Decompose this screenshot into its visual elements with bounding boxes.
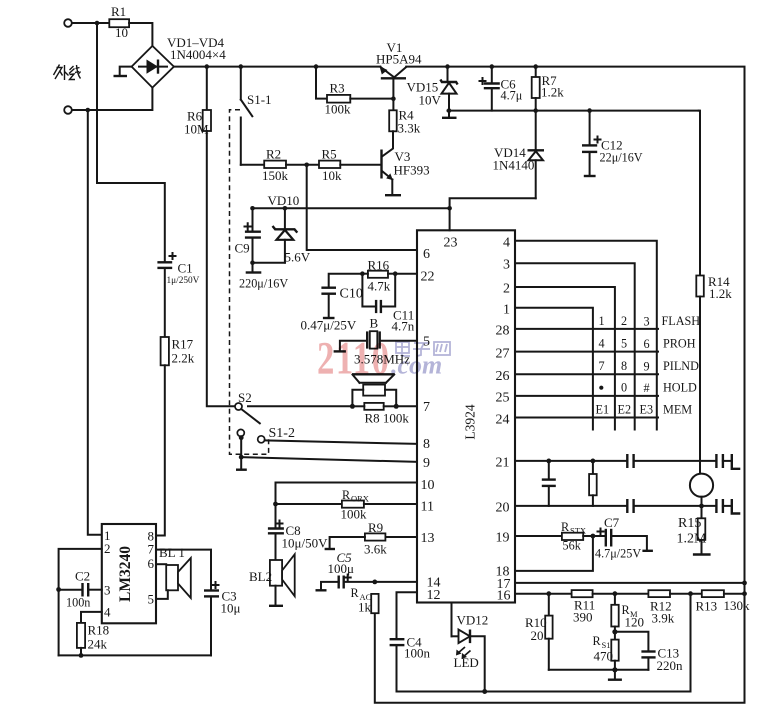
resistor R18: [77, 612, 109, 656]
resistor R12: [648, 590, 701, 625]
capacitor shunt 21-20: [542, 461, 556, 506]
svg-text:11: 11: [421, 500, 434, 515]
svg-text:10: 10: [115, 25, 128, 40]
speaker BL1: [156, 545, 191, 599]
wire: [129, 23, 152, 46]
svg-text:100n: 100n: [66, 596, 90, 610]
keypad labels: [596, 314, 654, 417]
wire to pin9: [241, 457, 417, 462]
svg-text:STX: STX: [570, 526, 586, 536]
wire upper-left rail: [97, 23, 165, 262]
node junction right edge 17: [742, 581, 747, 586]
svg-text:1N4140: 1N4140: [493, 158, 535, 173]
node junction ground: [612, 667, 617, 672]
svg-text:10M: 10M: [184, 122, 209, 137]
resistor R10: [525, 594, 553, 670]
resistor R13: [696, 590, 751, 613]
IC U2 LM3240: [102, 524, 156, 623]
svg-text:22μ/16V: 22μ/16V: [600, 151, 643, 165]
wire: [286, 164, 319, 166]
svg-text:BL2: BL2: [249, 569, 272, 584]
svg-text:C1: C1: [178, 261, 193, 276]
node junction Rs1 top: [613, 591, 618, 596]
svg-text:3.3k: 3.3k: [398, 121, 421, 136]
node junction: [304, 163, 309, 168]
terminal T2: [64, 106, 72, 114]
svg-text:16: 16: [497, 589, 511, 604]
wire rail to LM3240 pin8: [156, 365, 165, 535]
svg-text:R8 100k: R8 100k: [365, 411, 410, 426]
wire to R14: [699, 111, 700, 276]
ground stub: [608, 670, 622, 680]
node junction VD10 top: [283, 206, 288, 211]
resistor RS1: [593, 632, 619, 670]
svg-text:FLASH: FLASH: [662, 314, 701, 328]
wire crystal to pin5: [380, 340, 417, 342]
capacitor C7: [595, 515, 653, 561]
svg-text:3: 3: [503, 258, 510, 273]
svg-text:1.2k: 1.2k: [709, 286, 732, 301]
wire pin23: [449, 208, 451, 230]
node junction pin10-11: [273, 502, 278, 507]
capacitor C9: [235, 208, 289, 290]
resistor R6: [184, 67, 211, 137]
svg-text:20: 20: [531, 628, 544, 643]
wire bottom rail inner: [397, 594, 691, 692]
resistor R1: [109, 4, 129, 40]
svg-text:E3: E3: [640, 403, 654, 417]
ground at bridge left: [114, 67, 132, 76]
svg-text:21: 21: [496, 456, 510, 471]
node junction R7 top: [533, 64, 538, 69]
node junction C9 bottom: [250, 260, 255, 265]
svg-text:C9: C9: [235, 241, 250, 256]
watermark dianziwang blue: [396, 342, 450, 356]
wire pin18: [515, 536, 593, 571]
watermark .com blue: [391, 351, 442, 380]
wire mic to line20: [701, 497, 703, 506]
crystal B: [354, 316, 410, 367]
node junction pin14: [372, 580, 377, 585]
wire VD14 to pin23: [450, 198, 536, 208]
svg-text:VD10: VD10: [268, 193, 300, 208]
resistor R2: [262, 147, 289, 184]
resistor RSTX: [561, 520, 605, 553]
svg-text:PROH: PROH: [663, 337, 696, 351]
capacitor C13: [615, 632, 683, 673]
svg-text:5: 5: [423, 335, 430, 350]
resistor R17: [161, 337, 195, 366]
svg-text:R1: R1: [111, 4, 126, 19]
svg-text:1.2M: 1.2M: [677, 532, 708, 547]
wire pin10: [276, 483, 418, 505]
node junction R16 right: [393, 271, 398, 276]
node junction R18 bottom: [79, 653, 84, 658]
wire pin19: [515, 535, 562, 537]
capacitor C10: [301, 287, 363, 333]
svg-text:5: 5: [621, 337, 627, 351]
wire pin4 column: [515, 241, 657, 430]
svg-text:2: 2: [621, 314, 627, 328]
resistor shunt 21-20: [589, 461, 597, 506]
wire pin6 branch: [307, 165, 417, 250]
buzzer transducer: [352, 374, 396, 406]
svg-text:7: 7: [423, 400, 430, 415]
wire pin3 column: [515, 263, 635, 429]
svg-text:220μ/16V: 220μ/16V: [239, 277, 288, 291]
svg-text:R2: R2: [266, 147, 281, 162]
svg-text:C2: C2: [75, 569, 90, 584]
capacitor coupling line21 right: [716, 454, 723, 468]
node junction R13 left: [688, 591, 693, 596]
svg-text:100k: 100k: [341, 507, 368, 522]
svg-text:R13: R13: [696, 599, 718, 614]
node junction C2: [56, 587, 61, 592]
node junction right edge 16: [742, 591, 747, 596]
capacitor C2: [59, 569, 102, 610]
svg-text:24k: 24k: [88, 637, 108, 652]
resistor R11: [572, 590, 649, 624]
capacitor C8: [268, 504, 328, 560]
wire bottom rail outer: [375, 583, 745, 703]
transistor V1: [376, 40, 422, 99]
resistor R5: [319, 147, 342, 184]
svg-text:4.7k: 4.7k: [368, 279, 391, 294]
svg-text:E1: E1: [596, 403, 610, 417]
node junction: [86, 108, 91, 113]
svg-text:VD12: VD12: [457, 613, 489, 628]
wire bottom: [59, 654, 211, 656]
svg-text:9: 9: [423, 456, 430, 471]
svg-text:150k: 150k: [262, 168, 289, 183]
svg-text:100k: 100k: [325, 102, 352, 117]
node junction R7 bottom: [533, 108, 538, 113]
terminal bracket line21: [723, 454, 740, 469]
svg-text:MEM: MEM: [663, 403, 692, 417]
wire pin25 row: [515, 395, 658, 397]
svg-text:7: 7: [148, 542, 155, 557]
svg-text:R16: R16: [368, 257, 390, 272]
ground under S1-2: [236, 457, 247, 470]
svg-text:3.9k: 3.9k: [652, 611, 675, 626]
switch S1-1: [241, 67, 272, 165]
transistor V3: [382, 131, 430, 195]
node junction VD15 anode: [447, 108, 452, 113]
svg-text:56k: 56k: [563, 539, 582, 553]
wire to V3 base: [340, 164, 381, 166]
svg-text:100n: 100n: [404, 646, 431, 661]
svg-text:25: 25: [496, 391, 510, 406]
terminal bracket line20: [723, 499, 740, 514]
switch S1-2: [237, 426, 295, 443]
node junction S1-1 tap: [239, 64, 244, 69]
capacitor series on line20: [627, 499, 633, 513]
wire: [241, 164, 264, 166]
wire pin20 line: [515, 505, 627, 507]
node junction shunt cap top: [546, 459, 551, 464]
svg-text:E2: E2: [618, 403, 632, 417]
svg-text:HF393: HF393: [394, 163, 430, 178]
svg-text:20: 20: [496, 501, 510, 516]
wire C10 branch: [329, 274, 363, 287]
svg-text:2110: 2110: [317, 331, 391, 383]
wire pin11: [276, 503, 342, 505]
svg-text:8: 8: [621, 359, 627, 373]
svg-text:22: 22: [421, 270, 435, 285]
svg-text:10: 10: [421, 478, 435, 493]
svg-text:R5: R5: [322, 147, 337, 162]
svg-text:10μ: 10μ: [221, 601, 241, 616]
ground stub under VD15: [442, 111, 457, 118]
node junction under S1-2: [239, 435, 244, 440]
wire: [350, 98, 393, 100]
svg-text:1k: 1k: [358, 600, 372, 615]
resistor R16: [362, 257, 395, 293]
svg-text:4: 4: [104, 605, 111, 620]
wire pin1 column: [515, 308, 593, 430]
wire pin14: [375, 581, 417, 583]
svg-text:R3: R3: [330, 81, 345, 96]
wire R14 to microphone: [699, 297, 701, 474]
svg-text:4.7μ: 4.7μ: [501, 89, 523, 103]
svg-text:12: 12: [427, 588, 441, 603]
wire C9-VD10 bottom: [253, 262, 285, 264]
svg-text:HP5A94: HP5A94: [376, 52, 422, 67]
svg-text:8: 8: [423, 437, 430, 452]
svg-text:2: 2: [104, 541, 111, 556]
svg-text:6: 6: [148, 556, 155, 571]
resistor RM: [611, 594, 644, 632]
node junction pin23 tap: [447, 206, 452, 211]
svg-text:9: 9: [644, 360, 650, 374]
svg-text:5.6V: 5.6V: [285, 250, 311, 265]
wire: [164, 268, 166, 337]
wire: [634, 505, 717, 507]
wire R8 to pin7: [396, 405, 417, 407]
node junction C9 top: [250, 206, 255, 211]
dashed switch box: [230, 110, 269, 455]
node junction C12 tap: [587, 108, 592, 113]
svg-text:LM3240: LM3240: [117, 546, 134, 602]
svg-text:LED: LED: [454, 655, 479, 670]
wire pin12: [397, 592, 418, 638]
resistor R7: [532, 67, 565, 111]
svg-text:1: 1: [503, 303, 510, 318]
resistor R4: [389, 99, 421, 136]
node junction R10 top: [546, 591, 551, 596]
node junction: [95, 21, 100, 26]
resistor R9: [325, 520, 388, 557]
wire pin16 line: [515, 593, 572, 595]
svg-text:28: 28: [496, 324, 510, 339]
svg-text:100μ: 100μ: [328, 561, 355, 576]
ground under C9: [246, 263, 262, 273]
svg-text:3: 3: [104, 583, 111, 598]
wire left rail to LM3240 pin1: [88, 110, 102, 535]
label 外线: [54, 65, 81, 81]
svg-text:0.47μ/25V: 0.47μ/25V: [301, 318, 357, 333]
svg-text:1μ/250V: 1μ/250V: [167, 276, 200, 286]
svg-text:R18: R18: [88, 623, 110, 638]
node junction mic bottom: [699, 504, 704, 509]
wire top rail: [174, 66, 380, 68]
node junction C6 tap: [490, 64, 495, 69]
wire mid rail: [448, 110, 699, 112]
svg-text:.com: .com: [391, 351, 442, 380]
svg-text:#: #: [644, 381, 650, 395]
wire crystal left lead: [340, 341, 367, 352]
svg-text:C7: C7: [604, 515, 620, 530]
wire top rail right of V1: [406, 67, 744, 583]
svg-text:23: 23: [444, 236, 458, 251]
wire S2 to R8: [248, 405, 352, 407]
IC U1 L3924: [417, 230, 515, 603]
wire: [634, 460, 717, 462]
svg-text:C10: C10: [340, 287, 363, 302]
zener VD15: [407, 67, 458, 111]
svg-text:R9: R9: [368, 520, 383, 535]
svg-text:PILND: PILND: [663, 359, 699, 373]
svg-text:130k: 130k: [724, 598, 751, 613]
svg-text:S2: S2: [238, 390, 252, 405]
capacitor series on line21: [627, 454, 633, 468]
svg-text:R: R: [593, 634, 602, 648]
resistor R14: [696, 274, 732, 301]
svg-text:13: 13: [421, 531, 435, 546]
svg-text:24: 24: [496, 413, 510, 428]
wire pin24 row: [515, 417, 658, 419]
svg-text:220n: 220n: [657, 658, 684, 673]
node junction R8 left: [350, 404, 355, 409]
svg-text:B: B: [370, 316, 379, 331]
switch S2: [235, 390, 260, 423]
wire pin26 row: [515, 373, 658, 375]
terminal T1: [64, 19, 72, 27]
svg-text:R: R: [342, 488, 351, 502]
node junction Rs1-Rs2: [612, 629, 617, 634]
svg-text:3.6k: 3.6k: [364, 542, 387, 557]
svg-text:1: 1: [599, 314, 605, 328]
resistor R15: [677, 506, 711, 555]
svg-text:BL 1: BL 1: [159, 545, 185, 560]
wire: [72, 88, 152, 110]
svg-text:0: 0: [621, 381, 627, 395]
wire pin2: [59, 549, 102, 590]
svg-text:470: 470: [594, 649, 614, 664]
svg-text:19: 19: [496, 531, 510, 546]
svg-text:3: 3: [644, 315, 650, 329]
wire pin27 row: [515, 351, 658, 353]
svg-text:10k: 10k: [322, 168, 342, 183]
node junction R8 right: [394, 404, 399, 409]
wire: [72, 22, 109, 24]
watermark 21IC red: [317, 331, 391, 383]
wire R6 rail down to S2: [207, 131, 235, 406]
capacitor C1: [157, 253, 199, 286]
svg-text:27: 27: [496, 347, 510, 362]
node junction: [239, 455, 244, 460]
wire S1-2 to pin8: [265, 440, 417, 444]
node junction R16 left: [360, 271, 365, 276]
svg-text:4: 4: [599, 337, 605, 351]
svg-text:S1-1: S1-1: [247, 92, 272, 107]
diode VD14: [493, 111, 545, 199]
capacitor coupling line20 right: [716, 499, 723, 513]
wire pin7 to C3 rail: [156, 550, 211, 590]
svg-text:5: 5: [148, 592, 155, 607]
svg-text:10μ/50V: 10μ/50V: [282, 536, 329, 551]
svg-text:7: 7: [599, 359, 605, 373]
wire S1-2 to ground junction: [240, 436, 242, 457]
wire R10 to Rs2 bottom: [549, 669, 649, 671]
node junction pin18-19: [591, 534, 596, 539]
capacitor C6: [480, 67, 523, 111]
microphone BM: [690, 474, 713, 497]
svg-text:L3924: L3924: [463, 404, 478, 439]
node junction R3 tap: [314, 64, 319, 69]
svg-text:10V: 10V: [419, 93, 442, 108]
node junction R6 tap: [205, 64, 210, 69]
svg-text:R: R: [351, 586, 360, 600]
svg-text:4: 4: [503, 236, 510, 251]
wire left rail: [58, 590, 60, 656]
speaker BL2: [249, 554, 295, 606]
svg-text:1.2k: 1.2k: [541, 85, 564, 100]
wire pin13: [385, 536, 417, 538]
svg-text:120: 120: [625, 615, 645, 630]
capacitor C12: [582, 111, 643, 176]
LED VD12: [452, 603, 489, 692]
node junction LED bottom: [482, 689, 487, 694]
resistor R3: [316, 67, 351, 117]
wire pin21 line: [515, 460, 627, 462]
resistor RAC: [351, 586, 379, 615]
svg-text:390: 390: [573, 610, 593, 625]
node junction: [391, 96, 396, 101]
svg-text:26: 26: [496, 369, 510, 384]
svg-text:1N4004×4: 1N4004×4: [170, 47, 226, 62]
svg-text:HOLD: HOLD: [663, 381, 697, 395]
wire pin28 row: [515, 328, 658, 330]
capacitor C4: [390, 635, 431, 692]
node junction shunt res top: [591, 459, 596, 464]
svg-text:4.7μ/25V: 4.7μ/25V: [595, 547, 641, 561]
node junction VD15 tap: [445, 64, 450, 69]
svg-text:R17: R17: [172, 337, 194, 352]
wire pin2 column: [515, 287, 615, 430]
keypad function labels: [662, 314, 701, 417]
svg-text:2: 2: [503, 282, 510, 297]
svg-text:6: 6: [644, 337, 650, 351]
capacitor C11: [362, 274, 414, 334]
svg-text:4.7n: 4.7n: [392, 319, 415, 334]
capacitor C3: [204, 582, 241, 655]
bridge rectifier VD1-VD4: [132, 35, 227, 88]
wire pin22: [395, 273, 417, 275]
svg-text:S1-2: S1-2: [269, 426, 295, 441]
wire pin17: [515, 582, 745, 584]
resistor R8: [352, 403, 409, 426]
wire VD10 rail: [252, 207, 450, 209]
capacitor C5: [316, 550, 375, 590]
svg-text:2.2k: 2.2k: [172, 351, 195, 366]
resistor RORX: [341, 488, 418, 522]
svg-text:R: R: [561, 520, 570, 534]
svg-text:R15: R15: [678, 516, 701, 531]
svg-text:6: 6: [423, 247, 430, 262]
zener VD10: [273, 208, 311, 264]
svg-text:ORX: ORX: [351, 494, 369, 504]
